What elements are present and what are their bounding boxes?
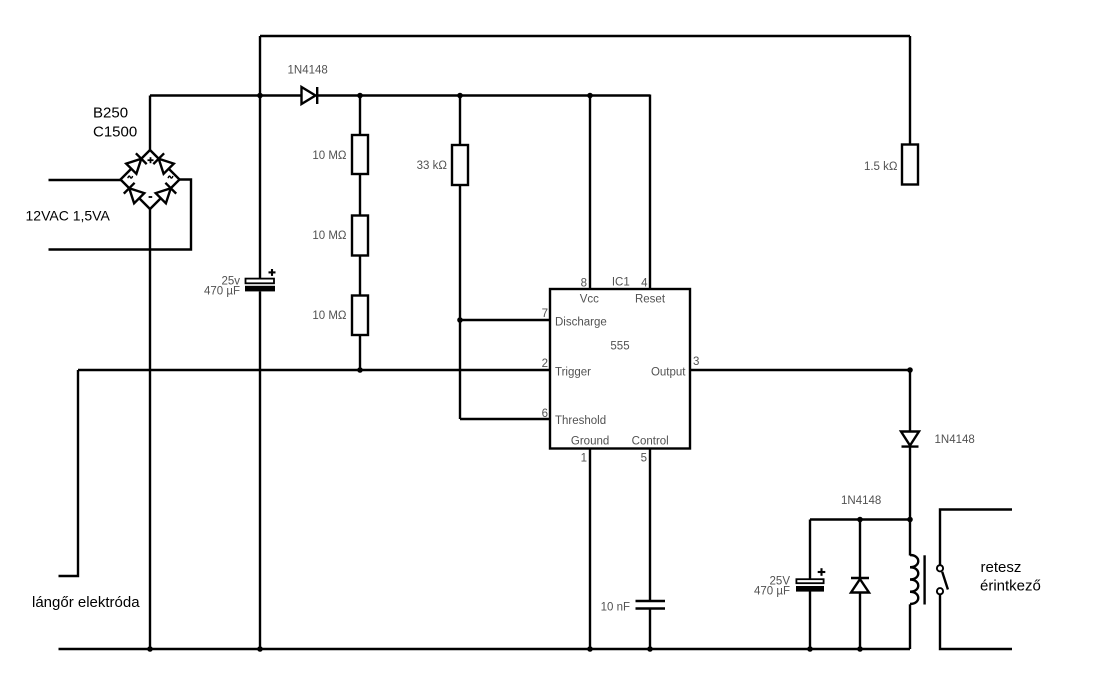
wire pin8 drop bbox=[589, 96, 591, 290]
wire electrode stub bbox=[59, 370, 79, 576]
capacitor C1 electrolytic 470uF bbox=[246, 279, 275, 284]
wire trigger bbox=[78, 369, 550, 371]
node junction trigger 10M bbox=[357, 367, 363, 373]
bridge diode upper-left bbox=[126, 159, 141, 174]
wire output bbox=[690, 369, 910, 371]
wire 10M chain bottom bbox=[359, 335, 361, 370]
wire pin1 drop bbox=[589, 449, 591, 650]
bridge diode upper-right bbox=[159, 159, 174, 174]
wire cap2 bottom lead bbox=[809, 592, 811, 650]
svg-text:1: 1 bbox=[581, 453, 587, 465]
wire 33k top bbox=[459, 96, 461, 146]
node junction V+ 10M bbox=[357, 93, 363, 99]
svg-text:Control: Control bbox=[632, 435, 669, 447]
svg-text:555: 555 bbox=[610, 341, 629, 353]
wire pin6 bbox=[460, 418, 551, 420]
svg-text:IC1: IC1 bbox=[612, 276, 630, 288]
wire switch top bbox=[940, 510, 1012, 566]
wire relay coil bottom lead bbox=[909, 604, 911, 649]
diode D2 1N4148 output bbox=[901, 432, 919, 446]
node junction V+ pin8 bbox=[587, 93, 593, 99]
bridge plus mark bbox=[148, 159, 154, 161]
diode D3 1N4148 flyback bbox=[851, 577, 869, 579]
svg-text:lángőr elektróda: lángőr elektróda bbox=[32, 594, 140, 611]
svg-text:Output: Output bbox=[651, 366, 686, 378]
svg-text:470 µF: 470 µF bbox=[204, 286, 240, 298]
svg-text:10 nF: 10 nF bbox=[601, 602, 630, 614]
wire 10M link1 bbox=[359, 174, 361, 216]
wire main V+ rail right of D1 bbox=[317, 94, 650, 96]
svg-text:1N4148: 1N4148 bbox=[935, 434, 975, 446]
wire 10n bottom lead bbox=[649, 609, 651, 650]
svg-text:12VAC 1,5VA: 12VAC 1,5VA bbox=[26, 208, 111, 224]
resistor R5 1.5k bbox=[902, 145, 918, 185]
svg-text:C1500: C1500 bbox=[93, 124, 137, 141]
wire relay top node bbox=[810, 518, 910, 520]
wire 10M chain top bbox=[359, 96, 361, 136]
wire AC input upper bbox=[49, 179, 122, 181]
bridge tilde left bbox=[128, 176, 133, 178]
node junction output bbox=[907, 367, 913, 373]
svg-text:33 kΩ: 33 kΩ bbox=[417, 160, 448, 172]
svg-text:1.5 kΩ: 1.5 kΩ bbox=[864, 161, 898, 173]
wire pin4 drop bbox=[649, 95, 651, 290]
resistor R1 10M bbox=[352, 135, 368, 174]
svg-text:2: 2 bbox=[542, 358, 548, 370]
wire 10M link2 bbox=[359, 256, 361, 296]
node junction 33k pin7 bbox=[457, 317, 463, 323]
node junction V+ 33k bbox=[457, 93, 463, 99]
wire relay coil top lead bbox=[909, 520, 911, 556]
relay core bar bbox=[923, 555, 925, 604]
wire D3 bottom lead bbox=[859, 593, 861, 650]
svg-text:3: 3 bbox=[693, 356, 699, 368]
wire pin7 bbox=[460, 319, 550, 321]
svg-text:Threshold: Threshold bbox=[555, 415, 606, 427]
wire AC input lower bbox=[49, 180, 192, 250]
op-amp U1 555 box bbox=[550, 289, 690, 449]
switch blade bbox=[942, 572, 948, 590]
resistor R3 10M bbox=[352, 296, 368, 336]
resistor R4 33k bbox=[452, 145, 468, 185]
svg-text:1N4148: 1N4148 bbox=[288, 65, 328, 77]
wire top rail bbox=[260, 35, 910, 37]
node junction V+ cap1 bbox=[257, 93, 263, 99]
svg-text:Trigger: Trigger bbox=[555, 366, 591, 378]
bridge diode lower-right bbox=[156, 188, 171, 203]
node junction gnd D3 bbox=[857, 646, 863, 652]
switch contact lower bbox=[937, 588, 943, 594]
bridge minus mark bbox=[149, 196, 153, 198]
node junction D3 top bbox=[857, 517, 863, 523]
svg-text:4: 4 bbox=[641, 278, 648, 290]
wire pin5 drop bbox=[649, 449, 651, 602]
svg-text:10 MΩ: 10 MΩ bbox=[312, 230, 347, 242]
svg-text:10 MΩ: 10 MΩ bbox=[312, 310, 347, 322]
wire D2 to relay node bbox=[909, 447, 911, 520]
capacitor C3 electrolytic 470uF bbox=[796, 579, 823, 583]
diode D1 1N4148 top bbox=[302, 87, 316, 104]
wire cap1 bottom lead bbox=[259, 292, 261, 650]
wire cap2 top lead bbox=[809, 520, 811, 580]
bridge rectifier B250 outline bbox=[121, 150, 180, 209]
svg-text:6: 6 bbox=[542, 408, 548, 420]
node junction gnd 10n bbox=[647, 646, 653, 652]
bridge diode lower-left bbox=[129, 188, 144, 203]
svg-text:Discharge: Discharge bbox=[555, 316, 607, 328]
node junction gnd pin1 bbox=[587, 646, 593, 652]
wire D3 top lead bbox=[859, 520, 861, 579]
switch contact upper bbox=[937, 565, 943, 571]
wire left drop from top rail bbox=[259, 36, 261, 279]
relay coil bbox=[910, 555, 918, 604]
svg-text:10 MΩ: 10 MΩ bbox=[312, 150, 347, 162]
node junction relay top bbox=[907, 517, 913, 523]
wire bridge top lead bbox=[149, 96, 151, 151]
resistor R2 10M bbox=[352, 216, 368, 256]
wire 33k bottom bbox=[459, 185, 461, 419]
svg-text:Ground: Ground bbox=[571, 435, 609, 447]
svg-text:1N4148: 1N4148 bbox=[841, 495, 881, 507]
wire right drop to 1.5k bbox=[909, 36, 911, 145]
node junction gnd cap1 bbox=[257, 646, 263, 652]
node junction gnd cap2 bbox=[807, 646, 813, 652]
bridge tilde right bbox=[168, 176, 173, 178]
svg-text:5: 5 bbox=[641, 453, 647, 465]
svg-text:7: 7 bbox=[542, 308, 548, 320]
svg-text:B250: B250 bbox=[93, 105, 128, 122]
svg-text:érintkező: érintkező bbox=[980, 578, 1041, 595]
capacitor C2 10nF bbox=[636, 600, 666, 602]
wire main V+ rail bbox=[150, 94, 302, 96]
svg-text:Reset: Reset bbox=[635, 294, 666, 306]
svg-text:8: 8 bbox=[581, 278, 587, 290]
svg-text:470 µF: 470 µF bbox=[754, 586, 790, 598]
svg-text:retesz: retesz bbox=[981, 559, 1022, 576]
wire output drop to D2 bbox=[909, 370, 911, 432]
wire switch bottom bbox=[940, 594, 1012, 649]
wire ground rail bbox=[59, 648, 911, 650]
svg-text:Vcc: Vcc bbox=[580, 294, 599, 306]
wire bridge bottom lead bbox=[149, 209, 151, 649]
node junction gnd bridge bbox=[147, 646, 153, 652]
